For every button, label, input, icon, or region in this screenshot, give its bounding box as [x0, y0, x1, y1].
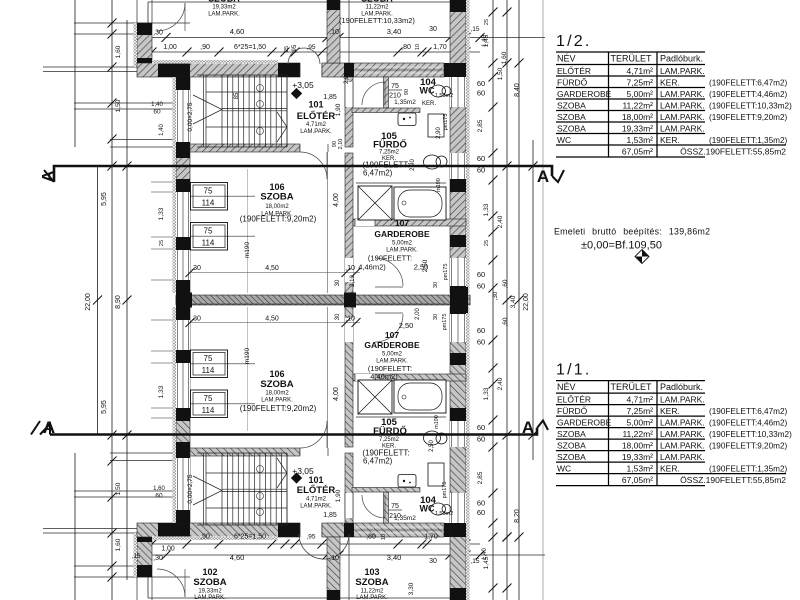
- svg-text:(190FELETT:6,47m2): (190FELETT:6,47m2): [709, 78, 788, 87]
- svg-text:18,00m²: 18,00m²: [622, 112, 653, 122]
- svg-text:,30: ,30: [153, 30, 163, 37]
- svg-text:LAM.PARK.: LAM.PARK.: [660, 452, 705, 462]
- svg-text:m190: m190: [244, 347, 251, 364]
- svg-text:Padlóburk.: Padlóburk.: [660, 382, 703, 392]
- svg-text:SZOBA: SZOBA: [361, 0, 393, 4]
- svg-text:1,85: 1,85: [323, 512, 337, 519]
- svg-text:19,33m²: 19,33m²: [622, 123, 653, 133]
- svg-text:8,20: 8,20: [514, 509, 521, 523]
- svg-text:ELŐTÉR: ELŐTÉR: [297, 484, 336, 496]
- svg-text:,90: ,90: [200, 44, 210, 51]
- section line A-A bottom: [31, 421, 548, 435]
- svg-text:ÖSSZ.190FELETT:55,85m2: ÖSSZ.190FELETT:55,85m2: [680, 147, 786, 157]
- svg-text:TERÜLET: TERÜLET: [611, 53, 653, 63]
- svg-text:210: 210: [389, 93, 401, 100]
- svg-text:,60: ,60: [502, 279, 509, 288]
- svg-text:GARDEROBE: GARDEROBE: [557, 417, 612, 427]
- svg-text:2,40: 2,40: [497, 215, 504, 228]
- svg-text:+3,05: +3,05: [292, 80, 314, 90]
- svg-text:60: 60: [477, 423, 485, 432]
- svg-text:TERÜLET: TERÜLET: [611, 382, 653, 392]
- svg-text:2,85: 2,85: [477, 471, 484, 484]
- svg-text:2,40: 2,40: [497, 377, 504, 390]
- svg-text:22,00: 22,00: [85, 293, 92, 311]
- svg-text:2,85: 2,85: [477, 119, 484, 132]
- benchmark symbol: [635, 250, 649, 264]
- svg-text:,80: ,80: [366, 534, 376, 541]
- svg-text:30: 30: [335, 279, 341, 286]
- svg-text:SZOBA: SZOBA: [260, 379, 293, 390]
- west wall: [176, 77, 190, 293]
- svg-text:4,60: 4,60: [230, 27, 245, 36]
- shower: [358, 186, 392, 220]
- svg-text:85: 85: [234, 92, 240, 99]
- svg-text:75: 75: [204, 354, 213, 363]
- svg-text:1,40: 1,40: [159, 124, 165, 136]
- radiators: [191, 183, 228, 211]
- svg-text:4,00: 4,00: [333, 387, 340, 401]
- svg-text:75: 75: [204, 187, 213, 196]
- svg-text:101: 101: [308, 475, 323, 485]
- svg-text:8,40: 8,40: [514, 83, 521, 97]
- svg-text:LAM.PARK.: LAM.PARK.: [208, 12, 240, 18]
- svg-text:SZOBA: SZOBA: [193, 577, 226, 588]
- svg-text:LAM.PARK.: LAM.PARK.: [660, 429, 705, 439]
- svg-text:22,00: 22,00: [523, 293, 530, 311]
- svg-text:60: 60: [155, 493, 163, 500]
- svg-text:18,00m2: 18,00m2: [265, 204, 289, 210]
- svg-text:1,70: 1,70: [433, 44, 447, 51]
- svg-text:60: 60: [477, 154, 485, 163]
- svg-text:0,00+2,75: 0,00+2,75: [187, 474, 194, 503]
- svg-text:,90: ,90: [200, 534, 210, 541]
- svg-text:3,40: 3,40: [387, 27, 402, 36]
- svg-text:1,50: 1,50: [115, 482, 122, 495]
- top dimension rows: [136, 33, 546, 57]
- svg-text:SZOBA: SZOBA: [557, 112, 586, 122]
- svg-text:1/2.: 1/2.: [556, 33, 592, 50]
- svg-text:WC: WC: [557, 463, 571, 473]
- svg-text:,15: ,15: [132, 554, 141, 560]
- svg-text:60: 60: [477, 166, 485, 175]
- svg-text:KER.: KER.: [660, 406, 680, 416]
- svg-text:FÜRDŐ: FÜRDŐ: [557, 406, 588, 416]
- svg-text:11,22m²: 11,22m²: [622, 429, 653, 439]
- svg-text:NÉV: NÉV: [557, 53, 576, 63]
- svg-text:m190: m190: [436, 178, 442, 192]
- svg-text:30: 30: [433, 282, 439, 288]
- svg-text:11,22m²: 11,22m²: [622, 100, 653, 110]
- svg-text:,95: ,95: [306, 44, 315, 51]
- svg-text:1,85: 1,85: [323, 94, 337, 101]
- svg-text:1,35m2: 1,35m2: [394, 99, 416, 106]
- top partition wall: [327, 0, 340, 63]
- svg-text:2,50: 2,50: [422, 259, 429, 272]
- svg-text:(190FELETT:10,33m2): (190FELETT:10,33m2): [709, 101, 792, 110]
- party wall: [176, 296, 470, 305]
- svg-text:2,50: 2,50: [429, 440, 435, 452]
- svg-text:5,95: 5,95: [101, 192, 108, 206]
- svg-text:5,00m²: 5,00m²: [627, 89, 654, 99]
- svg-text:6,47m2): 6,47m2): [363, 169, 393, 178]
- svg-text:6*25=1,50: 6*25=1,50: [234, 534, 266, 541]
- svg-text:2,10: 2,10: [338, 139, 344, 150]
- svg-text:LAM.PARK.: LAM.PARK.: [261, 398, 293, 404]
- east wall: [450, 0, 466, 293]
- svg-text:75: 75: [391, 503, 399, 510]
- svg-text:10: 10: [415, 44, 421, 50]
- svg-text:1,33: 1,33: [158, 385, 165, 398]
- cabinet: [428, 114, 444, 137]
- porch west wall: [136, 0, 138, 23]
- svg-text:60: 60: [477, 326, 485, 335]
- svg-text:60: 60: [477, 89, 485, 98]
- svg-text:,60: ,60: [502, 317, 509, 326]
- svg-text:ELŐTÉR: ELŐTÉR: [297, 110, 336, 122]
- svg-text:1,50: 1,50: [497, 67, 504, 80]
- svg-text:5,95: 5,95: [101, 400, 108, 414]
- bathtub: [394, 187, 446, 220]
- svg-text:60: 60: [477, 435, 485, 444]
- svg-text:pm175: pm175: [443, 264, 449, 281]
- svg-text:4,46m2): 4,46m2): [370, 372, 398, 381]
- svg-text:8,90: 8,90: [115, 295, 122, 309]
- svg-text:1,53m²: 1,53m²: [627, 135, 654, 145]
- svg-text:1,53m2: 1,53m2: [435, 511, 453, 517]
- svg-text:ELŐTÉR: ELŐTÉR: [557, 394, 591, 404]
- svg-text:2,50: 2,50: [399, 321, 414, 330]
- svg-text:10: 10: [381, 534, 387, 540]
- svg-text:ÖSSZ.190FELETT:55,85m2: ÖSSZ.190FELETT:55,85m2: [680, 475, 786, 485]
- svg-text:(190FELETT:: (190FELETT:: [368, 254, 412, 263]
- svg-text:LAM.PARK.: LAM.PARK.: [194, 595, 226, 600]
- entry door arc top: [288, 48, 320, 64]
- svg-text:7,25m²: 7,25m²: [627, 406, 654, 416]
- svg-text:114: 114: [202, 366, 215, 375]
- svg-text:25: 25: [484, 240, 490, 246]
- svg-text:,10: ,10: [329, 29, 339, 36]
- svg-text:5,00m2: 5,00m2: [382, 352, 403, 358]
- svg-text:,30: ,30: [493, 291, 499, 300]
- svg-text:FÜRDŐ: FÜRDŐ: [373, 425, 407, 437]
- svg-text:KER.: KER.: [422, 101, 436, 107]
- svg-text:19,33m2: 19,33m2: [212, 5, 236, 11]
- svg-text:1,00: 1,00: [163, 44, 177, 51]
- svg-text:7,25m2: 7,25m2: [379, 150, 400, 156]
- svg-text:210: 210: [389, 513, 401, 520]
- svg-text:25: 25: [284, 46, 290, 52]
- right dimension grid: [489, 0, 544, 600]
- svg-text:Emeleti bruttó beépítés: 139,: Emeleti bruttó beépítés: 139,86m2: [554, 227, 710, 237]
- svg-text:LAM.PARK.: LAM.PARK.: [660, 100, 705, 110]
- svg-text:FÜRDŐ: FÜRDŐ: [557, 77, 588, 87]
- svg-text:4,71m2: 4,71m2: [306, 122, 327, 128]
- svg-text:1,40: 1,40: [151, 102, 163, 108]
- left dimension grid: [43, 0, 190, 600]
- north wall: [137, 63, 300, 77]
- svg-text:4,60: 4,60: [230, 553, 245, 562]
- svg-text:LAM.PARK.: LAM.PARK.: [356, 595, 388, 600]
- svg-text:18,00m²: 18,00m²: [622, 440, 653, 450]
- svg-text:19,33m²: 19,33m²: [622, 452, 653, 462]
- svg-text:75: 75: [204, 227, 213, 236]
- svg-text:SZOBA: SZOBA: [355, 577, 388, 588]
- svg-text:60: 60: [153, 109, 161, 116]
- svg-text:,95: ,95: [292, 44, 298, 53]
- bottom dimension rows: [136, 540, 546, 560]
- svg-text:A: A: [537, 167, 549, 186]
- svg-text:1,90: 1,90: [335, 489, 342, 502]
- svg-text:GARDEROBE: GARDEROBE: [364, 340, 420, 350]
- svg-text:60: 60: [477, 270, 485, 279]
- svg-text:60: 60: [477, 338, 485, 347]
- svg-text:67,05m²: 67,05m²: [622, 475, 653, 485]
- svg-text:2,90: 2,90: [410, 159, 416, 171]
- svg-text:1,45: 1,45: [483, 556, 490, 569]
- svg-text:3,40: 3,40: [510, 295, 517, 308]
- svg-text:1,60: 1,60: [115, 538, 122, 551]
- svg-text:Padlóburk.: Padlóburk.: [660, 53, 703, 63]
- svg-text:LAM.PARK.: LAM.PARK.: [660, 112, 705, 122]
- svg-text:1,33: 1,33: [483, 387, 490, 400]
- svg-text:ELŐTÉR: ELŐTÉR: [557, 66, 591, 76]
- svg-text:LAM.PARK.: LAM.PARK.: [660, 394, 705, 404]
- svg-text:pm175: pm175: [443, 114, 449, 131]
- svg-text:WC: WC: [420, 86, 435, 96]
- level marker bottom: [291, 472, 302, 483]
- stairs: [203, 75, 205, 147]
- svg-text:25: 25: [159, 240, 165, 246]
- svg-text:KER.: KER.: [660, 77, 680, 87]
- svg-text:±0,00=Bf.109,50: ±0,00=Bf.109,50: [581, 240, 662, 252]
- svg-text:3,40: 3,40: [387, 553, 402, 562]
- svg-text:,15: ,15: [470, 26, 479, 33]
- entry door arc bottom: [299, 534, 349, 559]
- svg-text:90: 90: [404, 89, 410, 95]
- svg-text:4,00: 4,00: [333, 193, 340, 207]
- svg-text:A: A: [40, 170, 57, 182]
- table 1/2.: [556, 33, 792, 157]
- svg-text:30: 30: [335, 313, 341, 320]
- svg-text:(190FELETT:4,46m2): (190FELETT:4,46m2): [709, 90, 788, 99]
- svg-text:SZOBA: SZOBA: [557, 123, 586, 133]
- svg-text:GARDEROBE: GARDEROBE: [557, 89, 612, 99]
- svg-text:(190FELETT:4,46m2): (190FELETT:4,46m2): [709, 418, 788, 427]
- svg-text:,95: ,95: [306, 534, 315, 541]
- svg-text:1,60: 1,60: [153, 486, 165, 492]
- svg-text:106: 106: [269, 182, 284, 192]
- svg-text:107: 107: [385, 330, 399, 340]
- svg-text:2,90: 2,90: [344, 72, 350, 84]
- svg-text:,10: ,10: [329, 555, 339, 562]
- svg-text:67,05m²: 67,05m²: [622, 146, 653, 156]
- svg-text:103: 103: [364, 567, 379, 577]
- svg-text:1,33: 1,33: [158, 207, 165, 220]
- svg-text:KER.: KER.: [660, 463, 680, 473]
- svg-text:30: 30: [429, 558, 437, 565]
- svg-text:1,00: 1,00: [161, 546, 175, 553]
- svg-text:106: 106: [269, 369, 284, 379]
- svg-text:,30: ,30: [153, 555, 163, 562]
- svg-text:SZOBA: SZOBA: [208, 0, 240, 4]
- svg-text:102: 102: [202, 567, 217, 577]
- svg-text:6,47m2): 6,47m2): [363, 457, 393, 466]
- table 1/1.: [556, 362, 792, 486]
- svg-text:(190FELETT:1,35m2): (190FELETT:1,35m2): [709, 464, 788, 473]
- svg-text:m190: m190: [434, 415, 440, 429]
- svg-text:101: 101: [308, 100, 323, 110]
- svg-text:4,50: 4,50: [265, 265, 279, 272]
- svg-text:4,71m²: 4,71m²: [627, 66, 654, 76]
- svg-text:19,33m2: 19,33m2: [198, 589, 222, 595]
- svg-text:4,71m2: 4,71m2: [306, 497, 327, 503]
- svg-text:(190FELETT:9,20m2): (190FELETT:9,20m2): [709, 441, 788, 450]
- svg-text:SZOBA: SZOBA: [557, 429, 586, 439]
- svg-text:1,50: 1,50: [115, 99, 122, 112]
- svg-text:107: 107: [395, 218, 409, 228]
- svg-text:(190FELETT:6,47m2): (190FELETT:6,47m2): [709, 407, 788, 416]
- svg-text:1,60: 1,60: [501, 51, 508, 64]
- svg-text:GARDEROBE: GARDEROBE: [374, 229, 430, 239]
- svg-text:5,00m²: 5,00m²: [627, 417, 654, 427]
- svg-text:18,00m2: 18,00m2: [265, 391, 289, 397]
- svg-text:60: 60: [477, 508, 485, 517]
- svg-text:11,22m2: 11,22m2: [361, 589, 385, 595]
- svg-text:30: 30: [433, 314, 439, 320]
- svg-text:LAM.PARK.: LAM.PARK.: [660, 66, 705, 76]
- svg-text:1,53m2: 1,53m2: [435, 93, 453, 99]
- svg-text:WC: WC: [557, 135, 571, 145]
- svg-text:pm175: pm175: [442, 314, 448, 331]
- svg-text:1,70: 1,70: [424, 534, 438, 541]
- svg-text:75: 75: [204, 394, 213, 403]
- svg-text:114: 114: [202, 239, 215, 248]
- svg-text:m190: m190: [244, 241, 251, 258]
- svg-text:SZOBA: SZOBA: [557, 452, 586, 462]
- building top half geometry: [134, 0, 471, 313]
- svg-text:,80: ,80: [401, 44, 411, 51]
- svg-text:1/1.: 1/1.: [556, 362, 592, 379]
- svg-text:4,46m2): 4,46m2): [358, 263, 386, 272]
- svg-text:WC: WC: [420, 504, 435, 514]
- svg-text:1,60: 1,60: [115, 45, 122, 58]
- svg-text:,30: ,30: [191, 316, 201, 323]
- svg-text:A: A: [522, 418, 534, 437]
- svg-text:30: 30: [429, 26, 437, 33]
- svg-text:2,10: 2,10: [350, 275, 356, 287]
- svg-text:(190FELETT:9,20m2): (190FELETT:9,20m2): [240, 215, 317, 224]
- svg-text:(190FELETT:10,33m2): (190FELETT:10,33m2): [339, 16, 415, 25]
- svg-text:(190FELETT:10,33m2): (190FELETT:10,33m2): [709, 430, 792, 439]
- svg-text:2,00: 2,00: [415, 308, 421, 320]
- svg-text:60: 60: [477, 499, 485, 508]
- svg-text:,15: ,15: [470, 558, 479, 565]
- svg-text:1,90: 1,90: [335, 103, 342, 116]
- svg-text:6*25=1,50: 6*25=1,50: [234, 44, 266, 51]
- svg-text:75: 75: [391, 83, 399, 90]
- svg-text:LAM.PARK.: LAM.PARK.: [660, 123, 705, 133]
- svg-text:60: 60: [477, 79, 485, 88]
- svg-text:LAM.PARK.: LAM.PARK.: [660, 417, 705, 427]
- washbasin: [398, 113, 416, 126]
- svg-text:LAM.PARK.: LAM.PARK.: [660, 89, 705, 99]
- toilet 105: [424, 155, 441, 169]
- svg-text:11,22m2: 11,22m2: [366, 5, 390, 11]
- svg-text:LAM.PARK.: LAM.PARK.: [660, 440, 705, 450]
- svg-text:A: A: [43, 418, 55, 437]
- svg-text:4,71m²: 4,71m²: [627, 394, 654, 404]
- svg-text:7,25m²: 7,25m²: [627, 77, 654, 87]
- svg-text:SZOBA: SZOBA: [557, 100, 586, 110]
- svg-text:60: 60: [477, 282, 485, 291]
- svg-text:NÉV: NÉV: [557, 382, 576, 392]
- svg-text:0,00+2,75: 0,00+2,75: [187, 102, 194, 131]
- section line A-A top: [44, 166, 564, 182]
- svg-text:114: 114: [202, 406, 215, 415]
- svg-text:4,50: 4,50: [265, 316, 279, 323]
- svg-text:pm175: pm175: [442, 482, 448, 499]
- level marker top: [291, 88, 302, 99]
- svg-text:3,30: 3,30: [408, 582, 415, 595]
- svg-text:114: 114: [202, 199, 215, 208]
- svg-text:(190FELETT:9,20m2): (190FELETT:9,20m2): [240, 404, 317, 413]
- svg-text:KER.: KER.: [660, 135, 680, 145]
- svg-text:,30: ,30: [191, 265, 201, 272]
- svg-text:LAM.PARK.: LAM.PARK.: [300, 504, 332, 510]
- svg-text:SZOBA: SZOBA: [557, 440, 586, 450]
- svg-text:25: 25: [484, 19, 490, 25]
- svg-text:(190FELETT:9,20m2): (190FELETT:9,20m2): [709, 113, 788, 122]
- svg-text:7,25m2: 7,25m2: [379, 437, 400, 443]
- svg-text:SZOBA: SZOBA: [260, 192, 293, 203]
- svg-text:(190FELETT:1,35m2): (190FELETT:1,35m2): [709, 136, 788, 145]
- svg-text:1,45: 1,45: [483, 34, 490, 47]
- svg-text:1,53m²: 1,53m²: [627, 463, 654, 473]
- svg-text:LAM.PARK.: LAM.PARK.: [300, 129, 332, 135]
- interior walls: [345, 77, 353, 147]
- svg-text:2,90: 2,90: [436, 127, 442, 139]
- svg-text:5,00m2: 5,00m2: [392, 241, 413, 247]
- wc 104 toilet: [431, 85, 446, 97]
- svg-text:1,33: 1,33: [483, 203, 490, 216]
